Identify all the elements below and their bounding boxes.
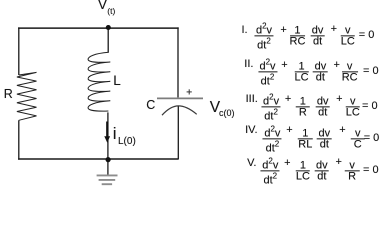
label R: [4, 88, 13, 101]
ground: [97, 175, 118, 184]
inductor L coil: [88, 52, 110, 111]
wire left lower: [18, 120, 20, 159]
capacitor C top plate: [157, 97, 203, 99]
wire middle branch upper: [107, 28, 109, 52]
wire right lower: [177, 106, 179, 159]
label i_L(0): [113, 125, 117, 142]
wire right upper: [177, 27, 179, 97]
capacitor plus sign: [187, 89, 192, 94]
wire middle branch lower: [107, 112, 109, 175]
label V(t): [98, 0, 107, 11]
wire bottom: [18, 158, 179, 160]
label V_c(0): [210, 100, 220, 116]
equation III: [246, 95, 258, 103]
wire top: [18, 27, 179, 29]
resistor R: [17, 72, 37, 120]
equation IV: [245, 126, 257, 134]
equation II: [244, 60, 253, 68]
label C: [146, 99, 155, 112]
node V(t) junction dot top: [106, 25, 111, 30]
node junction dot bottom: [106, 157, 111, 162]
capacitor C bottom plate arc: [162, 106, 197, 115]
equation I: [242, 26, 248, 34]
wire left: [18, 27, 20, 75]
equation V: [247, 159, 256, 167]
arrow i_L(0): [106, 122, 108, 138]
label L: [113, 74, 121, 88]
